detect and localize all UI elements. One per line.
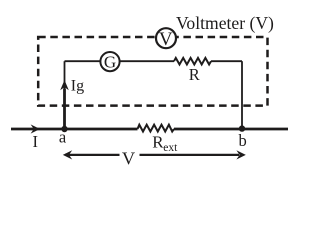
svg-text:I: I [32,132,38,151]
svg-text:a: a [59,127,67,146]
svg-text:Voltmeter (V): Voltmeter (V) [176,13,274,33]
svg-text:G: G [104,53,116,72]
svg-text:b: b [238,131,246,150]
svg-text:R: R [189,65,200,84]
svg-text:V: V [122,149,136,169]
svg-text:V: V [159,29,173,50]
svg-text:Ig: Ig [71,77,84,94]
svg-text:ext: ext [163,142,178,154]
